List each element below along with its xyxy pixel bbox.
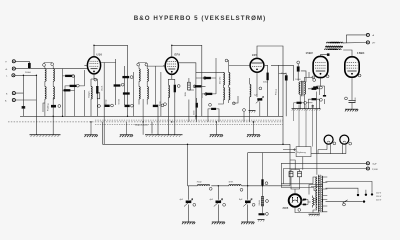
tube V5 <box>345 57 359 77</box>
trimmer C1 <box>43 64 46 67</box>
pad <box>312 76 315 79</box>
wire R3 <box>63 89 75 91</box>
pad <box>266 200 269 203</box>
resistor R9 <box>206 93 213 95</box>
wire rectifier anode top <box>291 177 300 194</box>
coil L1a <box>45 69 46 81</box>
wire IF2 primary top <box>196 71 223 73</box>
wire V4 cathode net <box>317 78 325 154</box>
resistor grid V4 <box>312 88 317 90</box>
pad <box>298 209 301 212</box>
pad <box>203 77 206 80</box>
wire V2 anode <box>178 63 196 120</box>
resistor grid stopper blob <box>327 53 330 56</box>
svg-text:1MΩ: 1MΩ <box>184 92 187 97</box>
wire stub <box>125 122 127 135</box>
wire detector coil <box>233 78 250 122</box>
pad <box>111 104 114 107</box>
wire HT taps to voltage dots <box>326 181 373 193</box>
terminal dot 4V b <box>357 194 359 196</box>
wire coil bank 1 frame <box>45 66 53 103</box>
svg-text:Bølgeb.: Bølgeb. <box>88 90 90 97</box>
trimmer C5 <box>137 63 140 66</box>
ground det <box>210 135 223 137</box>
pad <box>94 78 97 81</box>
terminal A <box>12 67 15 70</box>
terminal B <box>12 98 15 101</box>
resistor cathode <box>96 86 98 94</box>
wire volume pot line <box>278 65 280 116</box>
coil grid winding <box>325 49 337 50</box>
coil output primary <box>326 42 338 43</box>
wire pot feed arrow <box>283 149 296 151</box>
capacitor small 2 <box>303 204 306 206</box>
pad <box>243 109 246 112</box>
pad <box>265 182 268 185</box>
coil output primary b <box>331 42 343 43</box>
svg-text:50000: 50000 <box>119 98 121 104</box>
choke 3mH <box>229 185 241 186</box>
svg-text:2,4kΩ: 2,4kΩ <box>258 200 261 206</box>
wire AVC dashed bus <box>8 121 283 123</box>
coil L2a <box>53 69 54 81</box>
wire heater to rectifier <box>309 185 323 195</box>
resistor R7 <box>204 77 211 79</box>
ground cap3 <box>241 222 254 224</box>
capacitor small aux <box>259 213 265 215</box>
svg-text:110 V: 110 V <box>376 193 382 195</box>
wire V3 cathode <box>257 72 260 116</box>
capacitor tone <box>312 106 315 107</box>
transformer output core <box>325 45 343 48</box>
capacitor C10 <box>196 103 198 108</box>
wire V1 grid <box>84 64 87 66</box>
capacitor 10000 <box>297 66 300 71</box>
resistor R8 <box>195 85 202 87</box>
pad <box>161 104 164 107</box>
resistor R6 <box>123 92 130 94</box>
ground cap2 <box>212 222 225 224</box>
wire trimmer link 2 <box>138 61 146 64</box>
pad <box>193 203 196 206</box>
wire caps join <box>302 200 311 205</box>
resistor R3 <box>64 89 71 91</box>
svg-text:130 V: 130 V <box>376 196 382 198</box>
capacitor electrolytic 2 <box>214 199 223 207</box>
coil L4a <box>147 69 148 81</box>
wire output to speaker terms <box>343 35 366 43</box>
ground aux <box>258 220 265 222</box>
pad <box>349 142 352 145</box>
wire V1 top cap <box>94 45 128 116</box>
pad <box>72 75 75 78</box>
pad <box>223 203 226 206</box>
wire J terminal down <box>15 74 36 76</box>
resistor antenna 200k <box>28 63 31 68</box>
wire IF2 secondary to V3 <box>229 60 250 73</box>
pad <box>130 76 133 79</box>
wire trimmer link <box>44 62 52 65</box>
coil detector <box>250 84 251 96</box>
pad <box>358 74 361 77</box>
pad <box>345 97 348 100</box>
coil cathode <box>91 87 92 99</box>
coil L3b <box>139 87 140 99</box>
svg-text:Bølgeomskifter: Bølgeomskifter <box>135 124 149 127</box>
switch voltage selector <box>326 200 366 203</box>
capacitor filter 2 <box>298 172 302 177</box>
wire stub <box>90 122 92 135</box>
svg-text:452 kHz: 452 kHz <box>220 77 222 84</box>
ground cap1 <box>182 222 195 224</box>
wire V2 top cap <box>172 45 202 116</box>
tube V3 <box>250 58 264 72</box>
capacitor padding <box>51 105 56 108</box>
transformer core <box>318 175 320 212</box>
svg-text:B&O HYPERBO 5 (VEKSELSTRØM): B&O HYPERBO 5 (VEKSELSTRØM) <box>134 15 267 22</box>
svg-text:50kΩ: 50kΩ <box>263 81 268 84</box>
svg-text:15BV: 15BV <box>306 51 314 55</box>
wire cap drops <box>189 153 296 222</box>
tube V4 <box>313 56 328 77</box>
capacitor IF1 foot <box>105 105 110 107</box>
resistor V2 cathode <box>174 85 176 93</box>
pad <box>320 98 323 101</box>
wire R7 net <box>189 58 219 122</box>
ground det2 <box>247 135 260 137</box>
tube V1 ECH <box>87 57 100 74</box>
coil IF2 secondary <box>229 73 230 85</box>
wire coupling caps <box>279 64 306 116</box>
pad <box>259 87 262 90</box>
ground transformer <box>309 214 320 216</box>
pad <box>232 102 235 105</box>
terminal mains 1 <box>366 162 369 165</box>
ground bar V2 wide <box>145 135 183 137</box>
svg-text:EF9: EF9 <box>175 52 181 56</box>
svg-text:10000: 10000 <box>295 79 301 81</box>
svg-text:Styrkereg.: Styrkereg. <box>297 151 307 154</box>
resistor dropper lower <box>261 197 263 206</box>
wire bank2 to V2 grid <box>147 65 165 67</box>
pad <box>209 187 212 190</box>
ground V5 <box>345 109 358 111</box>
wire V4 top cap <box>321 55 327 57</box>
pad <box>240 188 243 191</box>
capacitor earth line <box>22 106 25 108</box>
trimmer C6 <box>145 63 148 66</box>
resistor R1 <box>65 75 72 77</box>
pad <box>177 85 180 88</box>
wire V3 top <box>257 46 283 144</box>
pad <box>333 142 336 145</box>
resistor R5b <box>114 84 121 86</box>
pad <box>304 101 307 104</box>
wire screen stubs <box>152 66 165 135</box>
wire secondary taps <box>323 177 328 212</box>
capacitor V3 cathode <box>256 97 264 104</box>
terminal F <box>12 60 15 63</box>
wire core to ground <box>318 212 320 214</box>
wire lamp leads <box>303 144 346 175</box>
ground bar left wide <box>30 134 61 136</box>
terminal speaker B <box>366 41 369 44</box>
wire dropper column <box>262 153 264 214</box>
wire tone net <box>294 103 313 147</box>
wire V1 cathode cluster <box>91 72 97 116</box>
resistor V3 anode <box>266 73 268 81</box>
pad <box>76 84 79 87</box>
wire V2 cathode <box>168 73 175 135</box>
svg-text:500Ω: 500Ω <box>104 99 107 104</box>
wire vertical to ground bar <box>35 75 37 135</box>
svg-text:Pickup: Pickup <box>275 88 277 95</box>
svg-text:Padding: Padding <box>48 104 50 111</box>
wire earth vertical <box>15 75 23 116</box>
coil IF2 secondary b <box>229 87 230 99</box>
wire F terminal to antenna resistor <box>15 61 29 63</box>
svg-text:200kΩ: 200kΩ <box>25 71 31 74</box>
pad <box>320 86 323 89</box>
ground bank2 <box>120 135 133 137</box>
svg-text:220 V: 220 V <box>376 200 382 202</box>
tube V2 EF <box>165 57 178 74</box>
wire IF2 frame <box>218 85 229 104</box>
resistor V4 cathode <box>313 86 318 88</box>
wire pickup terminal <box>15 99 36 101</box>
pad <box>266 213 269 216</box>
capacitor small 1 <box>303 199 306 201</box>
pad <box>205 93 208 96</box>
svg-text:750Ω: 750Ω <box>197 182 202 184</box>
coil L1b <box>45 87 46 99</box>
resistor R10 <box>211 108 216 110</box>
resistor tone <box>297 102 302 104</box>
pad <box>297 61 300 64</box>
trimmer C2 <box>51 63 54 66</box>
wire V5 top cap <box>343 50 352 57</box>
pad <box>193 85 196 88</box>
terminal J <box>12 74 15 77</box>
capacitor c7 <box>125 105 130 107</box>
svg-text:2,5kW: 2,5kW <box>372 169 378 171</box>
coil AF primary <box>299 82 300 94</box>
svg-text:65µµF: 65µµF <box>281 73 288 75</box>
coil L3a <box>139 69 140 81</box>
wire bus chassis <box>20 115 283 117</box>
pad <box>313 79 316 82</box>
terminal dot 0V <box>365 194 367 196</box>
svg-text:3mH.: 3mH. <box>229 182 234 184</box>
pad selector <box>343 203 346 206</box>
svg-text:915: 915 <box>252 53 257 57</box>
coil primary winding <box>316 177 317 189</box>
pad <box>209 103 212 106</box>
svg-text:Z4V5: Z4V5 <box>283 207 289 210</box>
capacitor filter 1 <box>289 172 293 177</box>
wire B+ bus <box>103 143 291 145</box>
wire padding cap branch <box>52 98 54 135</box>
coil IF2 primary b <box>223 87 224 99</box>
wire V3 anode to coupling <box>264 65 279 116</box>
pad <box>225 59 228 62</box>
wire coil bank 2 frame <box>139 66 147 104</box>
wire rectifier output <box>295 201 319 213</box>
wire mains leads <box>281 163 366 184</box>
coil IF2 primary <box>223 73 224 85</box>
svg-text:15BK: 15BK <box>357 51 365 55</box>
wire dashed bus A <box>95 119 283 121</box>
wire choke bus <box>188 144 291 186</box>
wire primary feeds <box>281 163 317 212</box>
svg-text:≈4µF: ≈4µF <box>372 164 377 166</box>
pad <box>326 75 329 78</box>
pad <box>98 105 101 108</box>
transformer AF core <box>302 81 304 97</box>
wire stub <box>253 122 255 135</box>
svg-text:U16: U16 <box>97 52 103 56</box>
coil L2b <box>53 87 54 99</box>
resistor R2 <box>70 85 77 87</box>
resistor dropper upper <box>261 179 263 185</box>
choke 750 <box>197 185 209 186</box>
resistor bias <box>312 98 317 100</box>
wire R2 branch <box>65 70 84 116</box>
pad <box>121 83 124 86</box>
capacitor c8 <box>153 105 158 107</box>
capacitor electrolytic 3 <box>243 199 252 207</box>
wire V1 anode to IF1 <box>101 59 125 144</box>
wire B+ riser <box>102 122 104 145</box>
svg-text:Forkr.: Forkr. <box>159 100 161 106</box>
coil V2 cathode <box>168 85 169 97</box>
coil grid winding b <box>329 49 341 50</box>
wire AF transformer nets <box>300 72 319 109</box>
terminal mains 2 <box>366 167 369 170</box>
svg-text:Oscill.: Oscill. <box>102 85 104 91</box>
wire stub <box>215 122 217 135</box>
lamp 1 <box>324 135 333 144</box>
ground V1 <box>84 135 97 137</box>
terminal speaker A <box>366 33 369 36</box>
ground bar long <box>292 109 321 111</box>
pad <box>252 203 255 206</box>
capacitor V5 cathode <box>349 100 356 102</box>
ground V3 <box>249 111 256 113</box>
capacitor 65uuF <box>285 75 288 80</box>
wire V5 cathode net <box>351 78 353 110</box>
coil AF secondary <box>304 82 305 94</box>
wire grid line to coil bank 1 and V1 <box>15 67 88 70</box>
wire caps top <box>290 160 300 172</box>
pad <box>58 105 61 108</box>
wire dashed bus C <box>95 123 283 125</box>
resistor bleeder vertical coil <box>313 196 315 208</box>
coil L4b <box>147 87 148 99</box>
coil secondary winding <box>322 176 323 188</box>
capacitor electrolytic 1 <box>184 199 193 207</box>
capacitor V4 <box>323 95 326 97</box>
lamp 2 <box>340 135 349 144</box>
pad <box>131 104 134 107</box>
terminal dot 4V a <box>371 193 373 195</box>
pad <box>164 103 167 106</box>
wire screen divider <box>63 69 75 117</box>
resistor hatched <box>97 93 100 99</box>
resistor vertical hatched <box>188 82 191 90</box>
terminal E <box>12 92 15 95</box>
resistor R5 <box>122 76 129 78</box>
wire bank2 verticals <box>134 66 161 135</box>
wire coil link <box>43 103 45 116</box>
